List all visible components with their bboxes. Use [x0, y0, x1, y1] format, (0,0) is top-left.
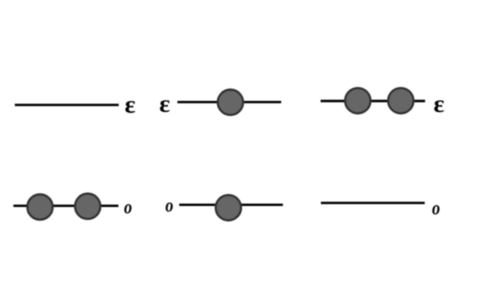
wire: top-right line [321, 100, 426, 102]
node: second bead on top-right line [388, 88, 413, 113]
label epsilon (top-right) [434, 100, 444, 112]
wire: bottom-middle line [179, 204, 283, 206]
node: second bead on bottom-left line [75, 194, 100, 219]
node: first bead on top-right line [345, 88, 370, 113]
label epsilon (top-middle) [160, 100, 170, 112]
node: bead on top-middle line [218, 90, 243, 115]
label o (bottom-right) [432, 205, 439, 214]
label epsilon (top-left) [125, 101, 135, 113]
wire: top-left empty strategy line [15, 104, 119, 106]
label o (bottom-middle) [166, 202, 173, 211]
node: bead on bottom-middle line [216, 195, 241, 220]
wire: bottom-right empty strategy line [321, 202, 425, 204]
wire: top-middle line [177, 101, 281, 103]
wire: bottom-left line [13, 205, 118, 207]
node: first bead on bottom-left line [27, 194, 52, 219]
label o (bottom-left) [124, 204, 131, 213]
